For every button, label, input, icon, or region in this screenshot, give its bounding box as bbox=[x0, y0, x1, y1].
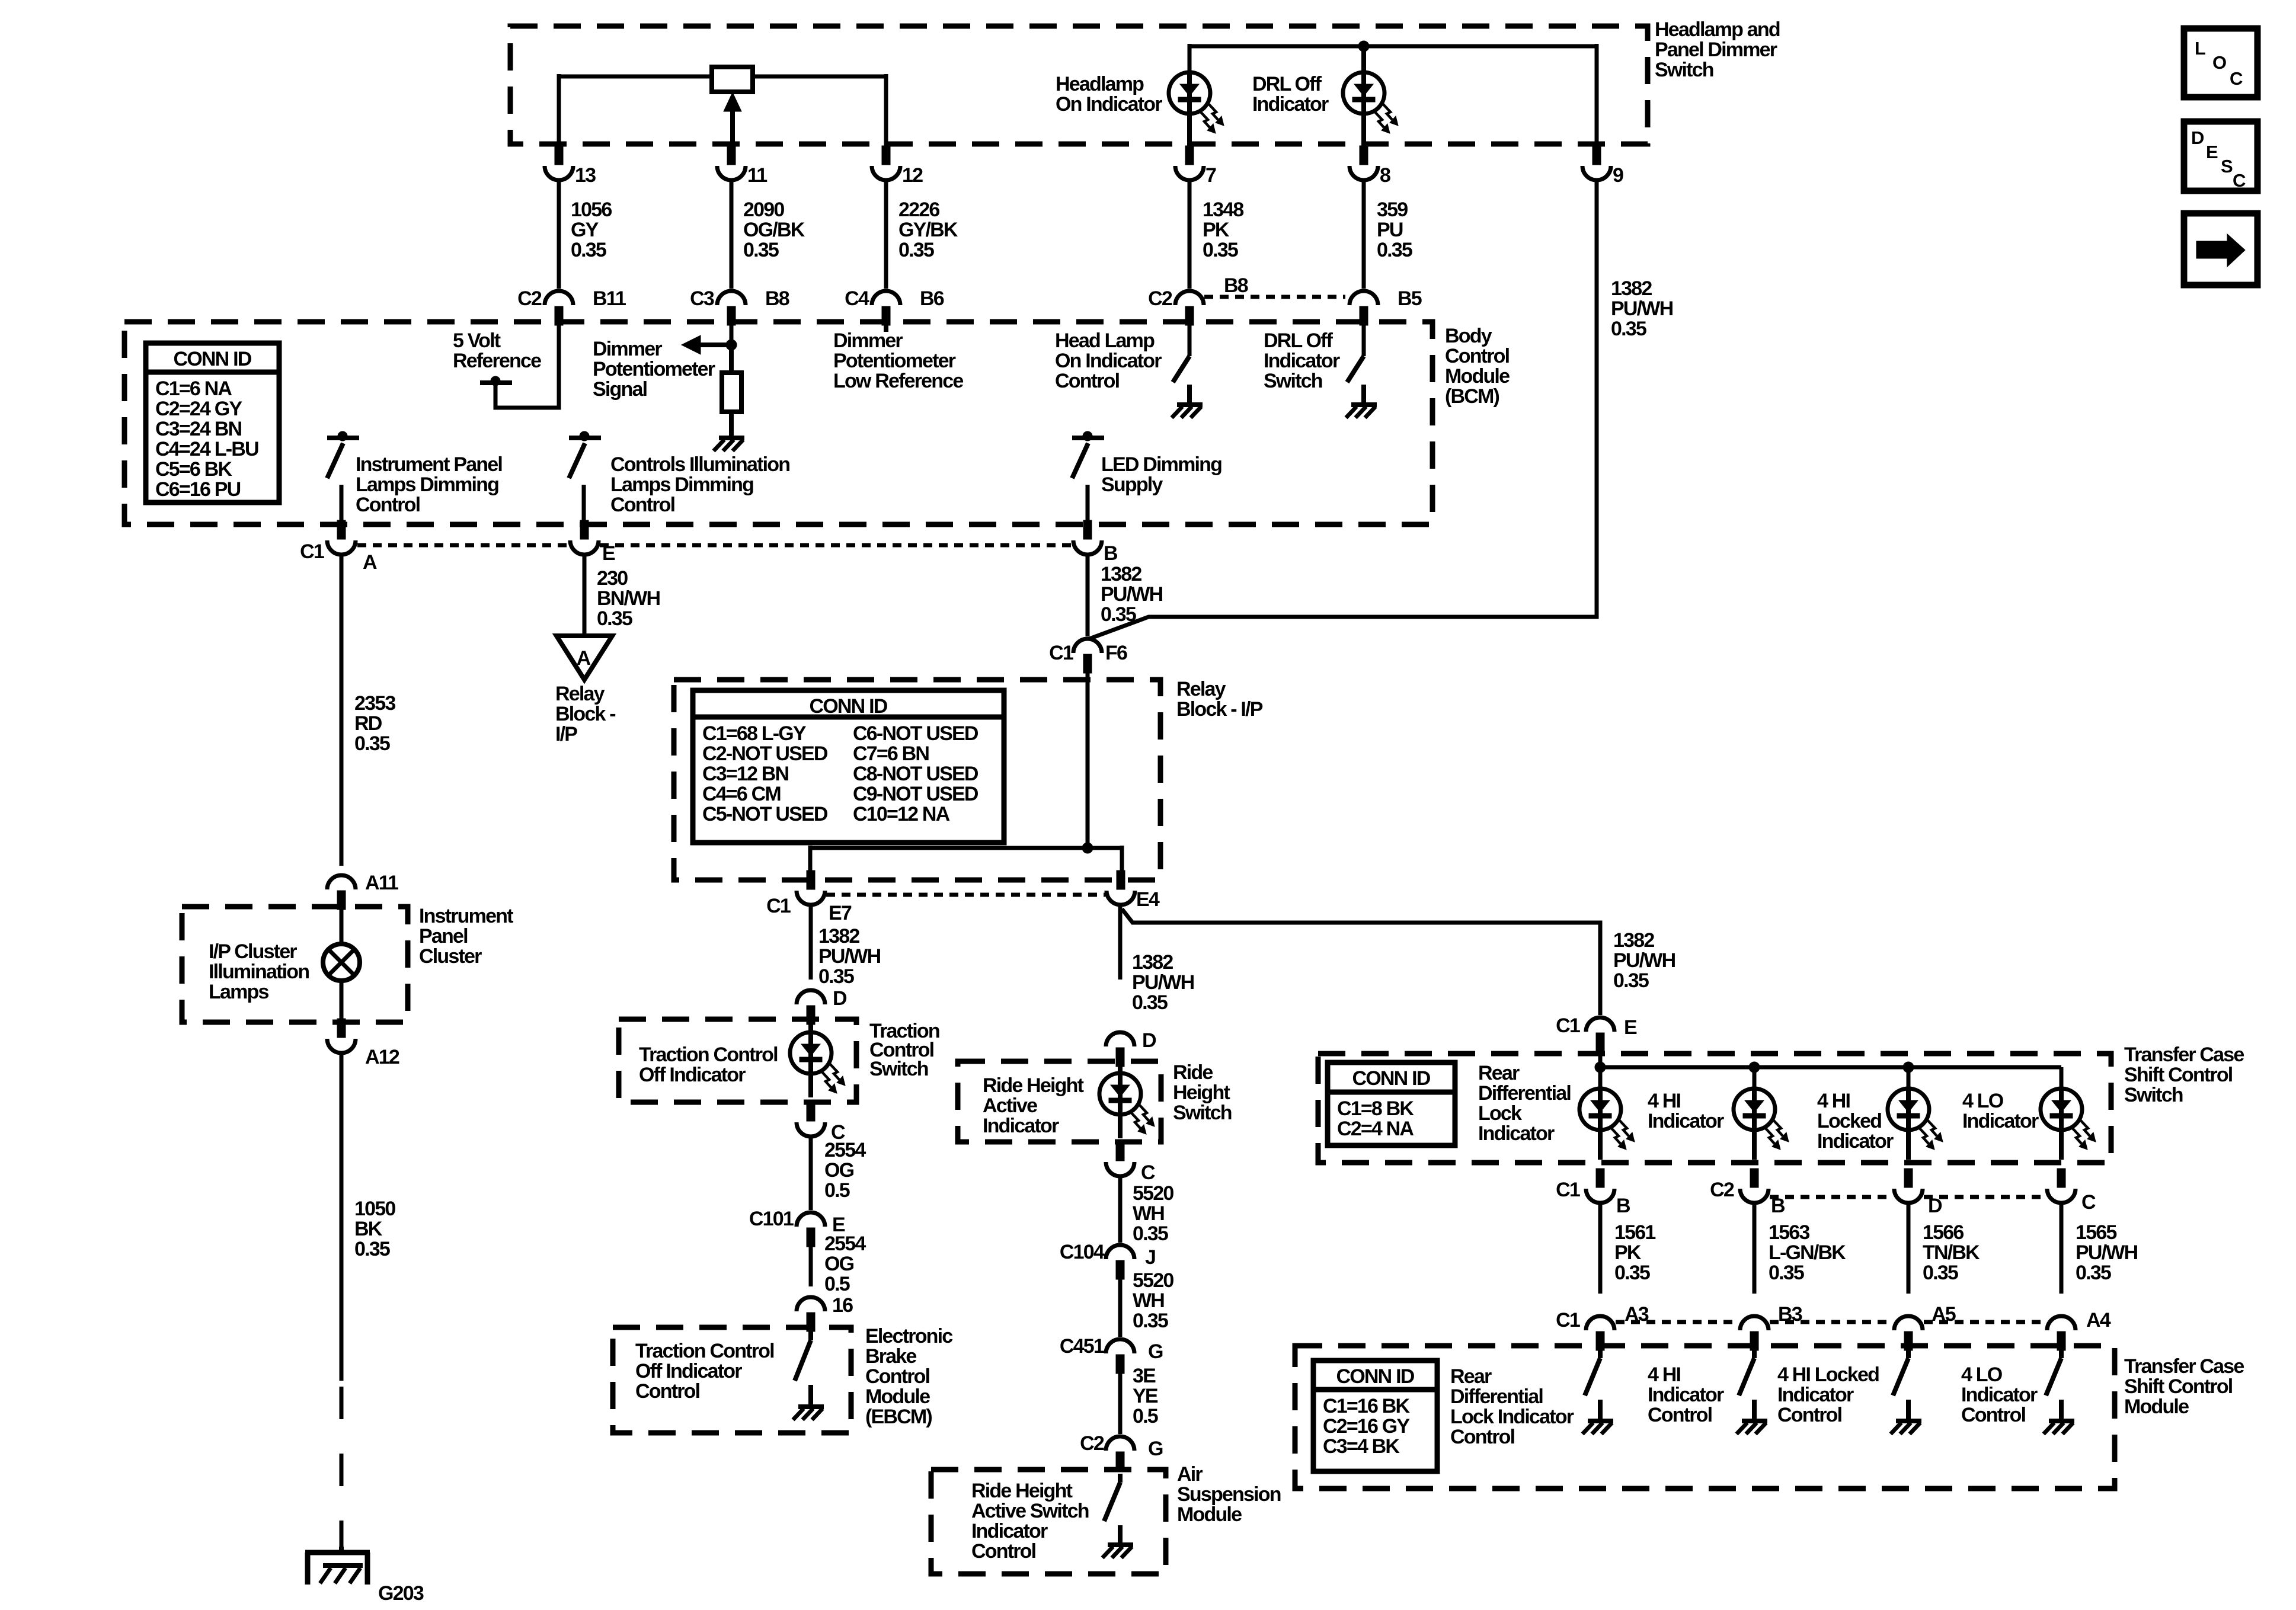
label Ride Height Switch bbox=[1173, 1061, 1232, 1124]
svg-text:PU/WH: PU/WH bbox=[1132, 971, 1194, 994]
wire LED bus bbox=[1189, 44, 1597, 146]
svg-text:C: C bbox=[2233, 170, 2246, 191]
label Controls Illumination Lamps Dimming Control bbox=[610, 453, 789, 516]
connector C1/A3 bbox=[1556, 1303, 1649, 1350]
svg-text:B5: B5 bbox=[1398, 287, 1422, 310]
label Traction Control Switch bbox=[869, 1020, 939, 1080]
wire from pin 9 bbox=[1089, 180, 1597, 639]
svg-text:0.35: 0.35 bbox=[1611, 318, 1646, 340]
connector E bbox=[570, 520, 615, 565]
connector C2/B bbox=[1710, 1169, 1785, 1217]
svg-text:Control: Control bbox=[1961, 1404, 2026, 1426]
wire label 1348 PK 0.35 bbox=[1203, 199, 1243, 261]
LED headlamp on indicator bbox=[1169, 72, 1224, 146]
label Dimmer Potentiometer Low Reference bbox=[833, 329, 963, 392]
svg-text:Lamps Dimming: Lamps Dimming bbox=[610, 473, 753, 496]
svg-text:C7=6 BN: C7=6 BN bbox=[853, 742, 929, 765]
svg-text:C2=24 GY: C2=24 GY bbox=[155, 398, 242, 420]
dotted line E7-E4 bbox=[826, 893, 1105, 897]
svg-text:E: E bbox=[602, 542, 615, 565]
svg-text:0.35: 0.35 bbox=[1613, 969, 1649, 992]
svg-text:Control: Control bbox=[971, 1540, 1036, 1563]
svg-text:Potentiometer: Potentiometer bbox=[593, 358, 715, 380]
svg-text:0.35: 0.35 bbox=[1133, 1222, 1168, 1245]
svg-text:4 LO: 4 LO bbox=[1962, 1090, 2004, 1112]
dotted line A-E-B bbox=[357, 543, 1072, 548]
svg-text:PU: PU bbox=[1377, 219, 1403, 241]
svg-text:5520: 5520 bbox=[1133, 1269, 1173, 1292]
svg-text:Module: Module bbox=[1177, 1503, 1242, 1526]
svg-text:OG/BK: OG/BK bbox=[743, 219, 805, 241]
junction dot dimmer signal bbox=[726, 340, 737, 350]
svg-text:PU/WH: PU/WH bbox=[1613, 949, 1675, 972]
wire F6 to junction bbox=[1086, 673, 1090, 848]
svg-text:0.35: 0.35 bbox=[1614, 1262, 1650, 1284]
switch DRL off indicator bbox=[1347, 325, 1364, 404]
svg-text:5520: 5520 bbox=[1133, 1182, 1173, 1205]
ground air suspension switch bbox=[1102, 1545, 1133, 1558]
label 5 Volt Reference bbox=[453, 329, 541, 372]
transfer case shift control module box bbox=[1295, 1346, 2115, 1489]
module CONN ID table bbox=[1313, 1361, 1437, 1471]
connector C4/B6 bbox=[845, 287, 944, 325]
switch CONN ID table bbox=[1328, 1062, 1455, 1145]
svg-text:4 LO: 4 LO bbox=[1961, 1363, 2003, 1386]
dotted line C2B-D-C bbox=[1770, 1195, 2046, 1199]
svg-text:C2: C2 bbox=[1080, 1432, 1104, 1455]
connector A12 bbox=[327, 1019, 399, 1068]
svg-text:L: L bbox=[2195, 38, 2205, 59]
svg-text:C3=4 BK: C3=4 BK bbox=[1323, 1435, 1400, 1458]
switch LED dimming supply bbox=[1072, 431, 1104, 522]
svg-text:Differential: Differential bbox=[1478, 1082, 1571, 1105]
svg-text:Low Reference: Low Reference bbox=[833, 370, 963, 392]
ground G203 bbox=[305, 1547, 424, 1605]
wire label 1050 BK 0.35 bbox=[354, 1198, 395, 1260]
wire lamp to A12 bbox=[340, 981, 344, 1020]
connector C3/B8 bbox=[690, 287, 789, 325]
connector C traction bbox=[797, 1102, 845, 1144]
svg-text:G: G bbox=[1148, 1438, 1163, 1460]
svg-text:C4: C4 bbox=[845, 287, 869, 310]
svg-text:TN/BK: TN/BK bbox=[1923, 1241, 1980, 1264]
svg-text:Head Lamp: Head Lamp bbox=[1055, 329, 1155, 352]
wire E to relay triangle bbox=[583, 555, 587, 636]
svg-text:PK: PK bbox=[1203, 219, 1230, 241]
wire label 1056 GY 0.35 bbox=[571, 199, 612, 261]
svg-text:230: 230 bbox=[597, 567, 628, 590]
svg-text:C5=6 BK: C5=6 BK bbox=[155, 458, 232, 481]
svg-text:4 HI: 4 HI bbox=[1648, 1090, 1681, 1112]
arrow dimmer potentiometer signal bbox=[682, 335, 731, 354]
wire label 1382 PU/WH 0.35 transfer bbox=[1613, 929, 1675, 992]
connector C2/G air bbox=[1080, 1432, 1163, 1471]
svg-text:A: A bbox=[363, 551, 377, 574]
svg-text:1565: 1565 bbox=[2076, 1221, 2116, 1244]
svg-text:GY/BK: GY/BK bbox=[898, 219, 958, 241]
label 4 LO Indicator bbox=[1962, 1090, 2039, 1132]
label 4 HI Indicator bbox=[1648, 1090, 1724, 1132]
svg-text:C2: C2 bbox=[1710, 1179, 1734, 1201]
wire D to A5 bbox=[1907, 1203, 1911, 1294]
svg-text:C5-NOT USED: C5-NOT USED bbox=[702, 803, 828, 825]
arrow box bbox=[2184, 213, 2257, 285]
svg-text:PU/WH: PU/WH bbox=[1101, 583, 1163, 606]
svg-text:I/P: I/P bbox=[555, 723, 577, 745]
connector A11 bbox=[327, 872, 398, 910]
svg-text:9: 9 bbox=[1613, 164, 1623, 187]
svg-text:C1=16 BK: C1=16 BK bbox=[1323, 1395, 1411, 1417]
wire C451 to C2 bbox=[1118, 1374, 1123, 1434]
BCM CONN ID table bbox=[146, 343, 279, 502]
svg-text:Indicator: Indicator bbox=[1962, 1110, 2039, 1132]
junction dots transfer bus bbox=[1595, 1062, 1914, 1073]
wire B8 to resistor bbox=[730, 325, 734, 345]
svg-text:Indicator: Indicator bbox=[1252, 93, 1329, 116]
svg-text:C8-NOT USED: C8-NOT USED bbox=[853, 763, 978, 785]
svg-text:Lock: Lock bbox=[1478, 1102, 1522, 1125]
switch ride height active indicator control bbox=[1104, 1474, 1120, 1544]
label 4 HI locked indicator control bbox=[1777, 1363, 1879, 1426]
svg-text:BN/WH: BN/WH bbox=[597, 587, 660, 610]
wire label 359 PU 0.35 bbox=[1377, 199, 1412, 261]
svg-text:Control: Control bbox=[865, 1365, 930, 1388]
svg-text:Control: Control bbox=[1450, 1426, 1515, 1448]
svg-text:C3=24 BN: C3=24 BN bbox=[155, 418, 242, 440]
ground head lamp switch bbox=[1172, 405, 1203, 418]
svg-text:Module: Module bbox=[1445, 365, 1510, 388]
wire label 2353 RD 0.35 bbox=[354, 692, 395, 755]
svg-text:Differential: Differential bbox=[1450, 1385, 1543, 1408]
label 4 LO indicator control bbox=[1961, 1363, 2038, 1426]
svg-text:0.35: 0.35 bbox=[743, 239, 779, 261]
svg-text:Control: Control bbox=[356, 494, 420, 516]
svg-text:1050: 1050 bbox=[354, 1198, 395, 1220]
air suspension module box bbox=[931, 1470, 1166, 1574]
resistor dimmer signal bbox=[722, 348, 741, 412]
LOC box bbox=[2184, 28, 2257, 97]
svg-text:S: S bbox=[2221, 156, 2233, 177]
svg-text:Headlamp: Headlamp bbox=[1056, 73, 1144, 95]
wire relay junction split bbox=[810, 846, 1122, 870]
ground DRL switch bbox=[1346, 405, 1377, 418]
svg-text:J: J bbox=[1145, 1246, 1155, 1269]
svg-text:Signal: Signal bbox=[593, 378, 647, 401]
svg-text:1563: 1563 bbox=[1769, 1221, 1809, 1244]
svg-text:Rear: Rear bbox=[1478, 1062, 1520, 1084]
svg-text:0.35: 0.35 bbox=[571, 239, 606, 261]
svg-text:DRL Off: DRL Off bbox=[1264, 329, 1334, 352]
svg-text:On Indicator: On Indicator bbox=[1056, 93, 1162, 116]
svg-text:F6: F6 bbox=[1105, 642, 1127, 664]
svg-text:0.35: 0.35 bbox=[1769, 1262, 1804, 1284]
LED 4 HI indicator bbox=[1734, 1089, 1789, 1160]
svg-text:0.35: 0.35 bbox=[597, 607, 632, 630]
svg-text:Indicator: Indicator bbox=[1648, 1110, 1724, 1132]
svg-text:Switch: Switch bbox=[1173, 1102, 1232, 1124]
wire label 2554 OG 0.5 lower bbox=[824, 1233, 866, 1295]
svg-text:13: 13 bbox=[575, 164, 596, 187]
wire label 5520 WH 0.35 upper bbox=[1133, 1182, 1173, 1245]
connector pin 9 bbox=[1582, 146, 1623, 187]
svg-text:0.35: 0.35 bbox=[898, 239, 934, 261]
wire label 2226 GY/BK 0.35 bbox=[898, 199, 958, 261]
svg-text:0.35: 0.35 bbox=[354, 732, 390, 755]
svg-text:8: 8 bbox=[1380, 164, 1390, 187]
svg-text:0.35: 0.35 bbox=[1377, 239, 1412, 261]
svg-text:Switch: Switch bbox=[1264, 370, 1322, 392]
svg-text:7: 7 bbox=[1205, 164, 1216, 187]
svg-text:2226: 2226 bbox=[898, 199, 939, 221]
connector C1/E7 bbox=[766, 870, 852, 924]
wire pot right bbox=[753, 74, 886, 146]
LED ride height active bbox=[1099, 1067, 1155, 1138]
connector pin 11 bbox=[717, 146, 767, 187]
svg-text:0.5: 0.5 bbox=[824, 1179, 850, 1202]
junction dot relay bbox=[1082, 843, 1093, 853]
svg-text:Indicator: Indicator bbox=[1961, 1384, 2038, 1406]
wire pot left bbox=[559, 74, 712, 146]
svg-text:Control: Control bbox=[635, 1380, 700, 1403]
wire B to B3 bbox=[1753, 1203, 1757, 1294]
svg-text:1566: 1566 bbox=[1923, 1221, 1964, 1244]
svg-text:C4=6 CM: C4=6 CM bbox=[702, 783, 781, 805]
svg-text:Block -: Block - bbox=[555, 703, 615, 725]
svg-text:Switch: Switch bbox=[869, 1058, 928, 1080]
svg-text:4 HI Locked: 4 HI Locked bbox=[1777, 1363, 1879, 1386]
svg-text:C2-NOT USED: C2-NOT USED bbox=[702, 742, 828, 765]
svg-text:1382: 1382 bbox=[1101, 563, 1141, 585]
connector C101/E bbox=[749, 1208, 845, 1247]
svg-text:Active: Active bbox=[983, 1094, 1037, 1117]
svg-text:0.35: 0.35 bbox=[2076, 1262, 2111, 1284]
wire C to A4 bbox=[2060, 1203, 2064, 1294]
svg-text:Transfer Case: Transfer Case bbox=[2124, 1044, 2244, 1066]
instrument panel cluster box bbox=[182, 907, 408, 1022]
svg-text:Cluster: Cluster bbox=[419, 945, 482, 968]
svg-text:PU/WH: PU/WH bbox=[2076, 1241, 2138, 1264]
switch head lamp on indicator control bbox=[1173, 325, 1189, 404]
label Relay Block IP under triangle bbox=[555, 683, 615, 745]
connector D traction bbox=[797, 987, 847, 1025]
svg-text:Traction Control: Traction Control bbox=[639, 1044, 778, 1066]
connector C1/F6 bbox=[1049, 639, 1127, 673]
svg-text:0.5: 0.5 bbox=[824, 1273, 850, 1295]
wire E4 branch to transfer case bbox=[1122, 909, 1600, 1015]
svg-text:A12: A12 bbox=[365, 1046, 399, 1068]
svg-text:Switch: Switch bbox=[1655, 59, 1713, 81]
svg-text:0.35: 0.35 bbox=[354, 1238, 390, 1260]
svg-text:Electronic: Electronic bbox=[865, 1325, 952, 1347]
svg-text:Indicator: Indicator bbox=[1817, 1130, 1894, 1153]
potentiometer dimmer bbox=[712, 67, 753, 92]
connector B5 bbox=[1350, 287, 1422, 325]
svg-text:Control: Control bbox=[1777, 1404, 1842, 1426]
svg-text:Control: Control bbox=[1445, 345, 1510, 367]
body control module box bbox=[124, 322, 1432, 524]
svg-text:PU/WH: PU/WH bbox=[1611, 297, 1673, 320]
svg-text:Control: Control bbox=[1648, 1404, 1712, 1426]
svg-text:Indicator: Indicator bbox=[983, 1115, 1059, 1137]
label Body Control Module bbox=[1445, 325, 1510, 408]
svg-text:On Indicator: On Indicator bbox=[1055, 350, 1162, 372]
svg-text:16: 16 bbox=[832, 1294, 853, 1317]
switch traction off indicator control bbox=[795, 1331, 811, 1406]
wire transfer LED bus bbox=[1600, 1052, 2061, 1089]
label Ride Height Active Indicator bbox=[983, 1074, 1084, 1137]
svg-text:Controls Illumination: Controls Illumination bbox=[610, 453, 789, 476]
connector C2/B8 headlamp bbox=[1148, 274, 1248, 325]
svg-text:1561: 1561 bbox=[1614, 1221, 1655, 1244]
off-page reference A relay block IP bbox=[557, 636, 612, 680]
svg-text:Control: Control bbox=[1055, 370, 1120, 392]
svg-text:11: 11 bbox=[747, 164, 767, 187]
DESC box bbox=[2184, 121, 2257, 191]
svg-text:OG: OG bbox=[824, 1159, 854, 1182]
svg-text:1382: 1382 bbox=[818, 925, 859, 948]
svg-text:RD: RD bbox=[354, 712, 382, 735]
svg-text:Indicator: Indicator bbox=[1777, 1384, 1854, 1406]
label Relay Block IP bbox=[1176, 678, 1263, 721]
wire C104 to C451 bbox=[1118, 1279, 1123, 1337]
svg-text:0.35: 0.35 bbox=[1133, 1310, 1168, 1332]
label Transfer Case Shift Control Switch bbox=[2124, 1044, 2244, 1106]
ground switch 4 HI indicator control bbox=[1737, 1421, 1767, 1434]
connector B bbox=[1073, 520, 1118, 565]
connector pin 7 bbox=[1175, 146, 1216, 187]
svg-text:E: E bbox=[1624, 1016, 1637, 1039]
svg-text:CONN ID: CONN ID bbox=[1336, 1365, 1415, 1388]
svg-text:Control: Control bbox=[610, 494, 675, 516]
ground switch 4 HI locked indicator control bbox=[1891, 1421, 1921, 1434]
svg-text:WH: WH bbox=[1133, 1289, 1164, 1312]
wire A to A11 bbox=[340, 555, 344, 866]
switch instrument panel lamps dimming bbox=[327, 431, 359, 522]
svg-text:C6=16 PU: C6=16 PU bbox=[155, 478, 241, 501]
wire label 5520 WH 0.35 lower bbox=[1133, 1269, 1173, 1332]
switch 4 LO indicator control bbox=[2046, 1350, 2061, 1420]
label LED Dimming Supply bbox=[1101, 453, 1221, 496]
wire A12 down bbox=[340, 1053, 344, 1381]
svg-text:D: D bbox=[1142, 1029, 1156, 1052]
wire label 1565 PU/WH 0.35 bbox=[2076, 1221, 2138, 1284]
svg-text:C1: C1 bbox=[1049, 642, 1073, 664]
svg-text:OG: OG bbox=[824, 1253, 854, 1275]
connector D transfer bbox=[1894, 1169, 1942, 1217]
svg-text:Relay: Relay bbox=[555, 683, 605, 705]
svg-text:CONN ID: CONN ID bbox=[174, 348, 252, 370]
svg-text:359: 359 bbox=[1377, 199, 1408, 221]
wire E4 to D bbox=[1118, 905, 1123, 980]
svg-text:1382: 1382 bbox=[1611, 277, 1652, 300]
label 4 HI indicator control bbox=[1648, 1363, 1724, 1426]
svg-text:Ride Height: Ride Height bbox=[983, 1074, 1084, 1097]
svg-text:3E: 3E bbox=[1133, 1365, 1156, 1387]
svg-text:1056: 1056 bbox=[571, 199, 612, 221]
svg-text:GY: GY bbox=[571, 219, 599, 241]
label Transfer Case Shift Control Module bbox=[2124, 1355, 2244, 1418]
connector C1/A bbox=[300, 520, 377, 574]
connector pin 12 bbox=[872, 146, 923, 187]
svg-text:2090: 2090 bbox=[743, 199, 784, 221]
svg-text:G: G bbox=[1148, 1340, 1163, 1363]
label Head Lamp On Indicator Control bbox=[1055, 329, 1162, 392]
svg-text:2554: 2554 bbox=[824, 1233, 866, 1255]
svg-text:5 Volt: 5 Volt bbox=[453, 329, 501, 352]
svg-text:O: O bbox=[2212, 52, 2226, 73]
LED DRL off indicator bbox=[1343, 72, 1398, 146]
svg-text:4 HI: 4 HI bbox=[1817, 1090, 1850, 1112]
svg-text:C1: C1 bbox=[766, 895, 791, 917]
svg-text:Module: Module bbox=[2124, 1395, 2189, 1418]
connector C451/G bbox=[1060, 1335, 1163, 1374]
junction dot bus bbox=[1358, 41, 1369, 72]
svg-text:Indicator: Indicator bbox=[971, 1520, 1048, 1542]
wire label 1561 PK 0.35 bbox=[1614, 1221, 1655, 1284]
svg-text:Locked: Locked bbox=[1817, 1110, 1881, 1132]
svg-text:D: D bbox=[2191, 127, 2204, 148]
label Rear Differential Lock Indicator Control bbox=[1450, 1365, 1574, 1448]
svg-text:C1: C1 bbox=[1556, 1179, 1580, 1201]
svg-text:C1: C1 bbox=[1556, 1014, 1580, 1037]
svg-text:DRL Off: DRL Off bbox=[1252, 73, 1322, 95]
connector 16 bbox=[797, 1294, 853, 1331]
svg-text:Headlamp and: Headlamp and bbox=[1655, 18, 1780, 41]
label Headlamp On Indicator bbox=[1056, 73, 1162, 116]
traction control off indicator box bbox=[619, 1019, 856, 1102]
label Headlamp and Panel Dimmer Switch bbox=[1655, 18, 1780, 81]
svg-text:BK: BK bbox=[354, 1218, 383, 1240]
label Instrument Panel Lamps Dimming Control bbox=[356, 453, 502, 516]
svg-text:C2: C2 bbox=[1148, 287, 1172, 310]
transfer case shift control switch box bbox=[1318, 1054, 2111, 1163]
svg-text:Panel: Panel bbox=[419, 925, 468, 948]
svg-text:Transfer Case: Transfer Case bbox=[2124, 1355, 2244, 1378]
svg-text:WH: WH bbox=[1133, 1202, 1164, 1225]
svg-text:CONN ID: CONN ID bbox=[1352, 1067, 1431, 1090]
svg-text:Air: Air bbox=[1177, 1463, 1203, 1486]
svg-text:L-GN/BK: L-GN/BK bbox=[1769, 1241, 1846, 1264]
svg-text:Indicator: Indicator bbox=[1648, 1384, 1724, 1406]
svg-text:E4: E4 bbox=[1136, 888, 1160, 911]
wire 8 to B5 bbox=[1362, 180, 1366, 289]
svg-text:C104: C104 bbox=[1060, 1241, 1105, 1263]
lamp IP cluster illumination bbox=[323, 944, 360, 981]
svg-text:Lock Indicator: Lock Indicator bbox=[1450, 1406, 1574, 1428]
svg-text:Ride: Ride bbox=[1173, 1061, 1213, 1084]
svg-text:B: B bbox=[1616, 1195, 1630, 1217]
wire label 1563 L-GN/BK 0.35 bbox=[1769, 1221, 1846, 1284]
svg-text:Relay: Relay bbox=[1176, 678, 1226, 700]
node 5 volt reference bbox=[480, 325, 559, 408]
svg-text:0.35: 0.35 bbox=[1132, 991, 1168, 1014]
wire label 1382 PU/WH 0.35 col 9 bbox=[1611, 277, 1673, 340]
svg-text:Ride Height: Ride Height bbox=[971, 1480, 1073, 1502]
svg-text:B8: B8 bbox=[1224, 274, 1248, 297]
svg-text:LED Dimming: LED Dimming bbox=[1101, 453, 1221, 476]
label Electronic Brake Control Module EBCM bbox=[865, 1325, 952, 1428]
svg-text:2554: 2554 bbox=[824, 1139, 866, 1161]
svg-text:C2=4 NA: C2=4 NA bbox=[1337, 1118, 1414, 1140]
svg-text:C9-NOT USED: C9-NOT USED bbox=[853, 783, 978, 805]
svg-text:C: C bbox=[2081, 1191, 2096, 1214]
switch controls illumination lamps dimming bbox=[569, 431, 601, 522]
svg-text:C: C bbox=[2230, 68, 2243, 89]
svg-text:Dimmer: Dimmer bbox=[833, 329, 903, 352]
svg-text:B11: B11 bbox=[593, 287, 626, 310]
wire B to A3 bbox=[1598, 1203, 1603, 1294]
LED traction control off bbox=[790, 1025, 845, 1097]
